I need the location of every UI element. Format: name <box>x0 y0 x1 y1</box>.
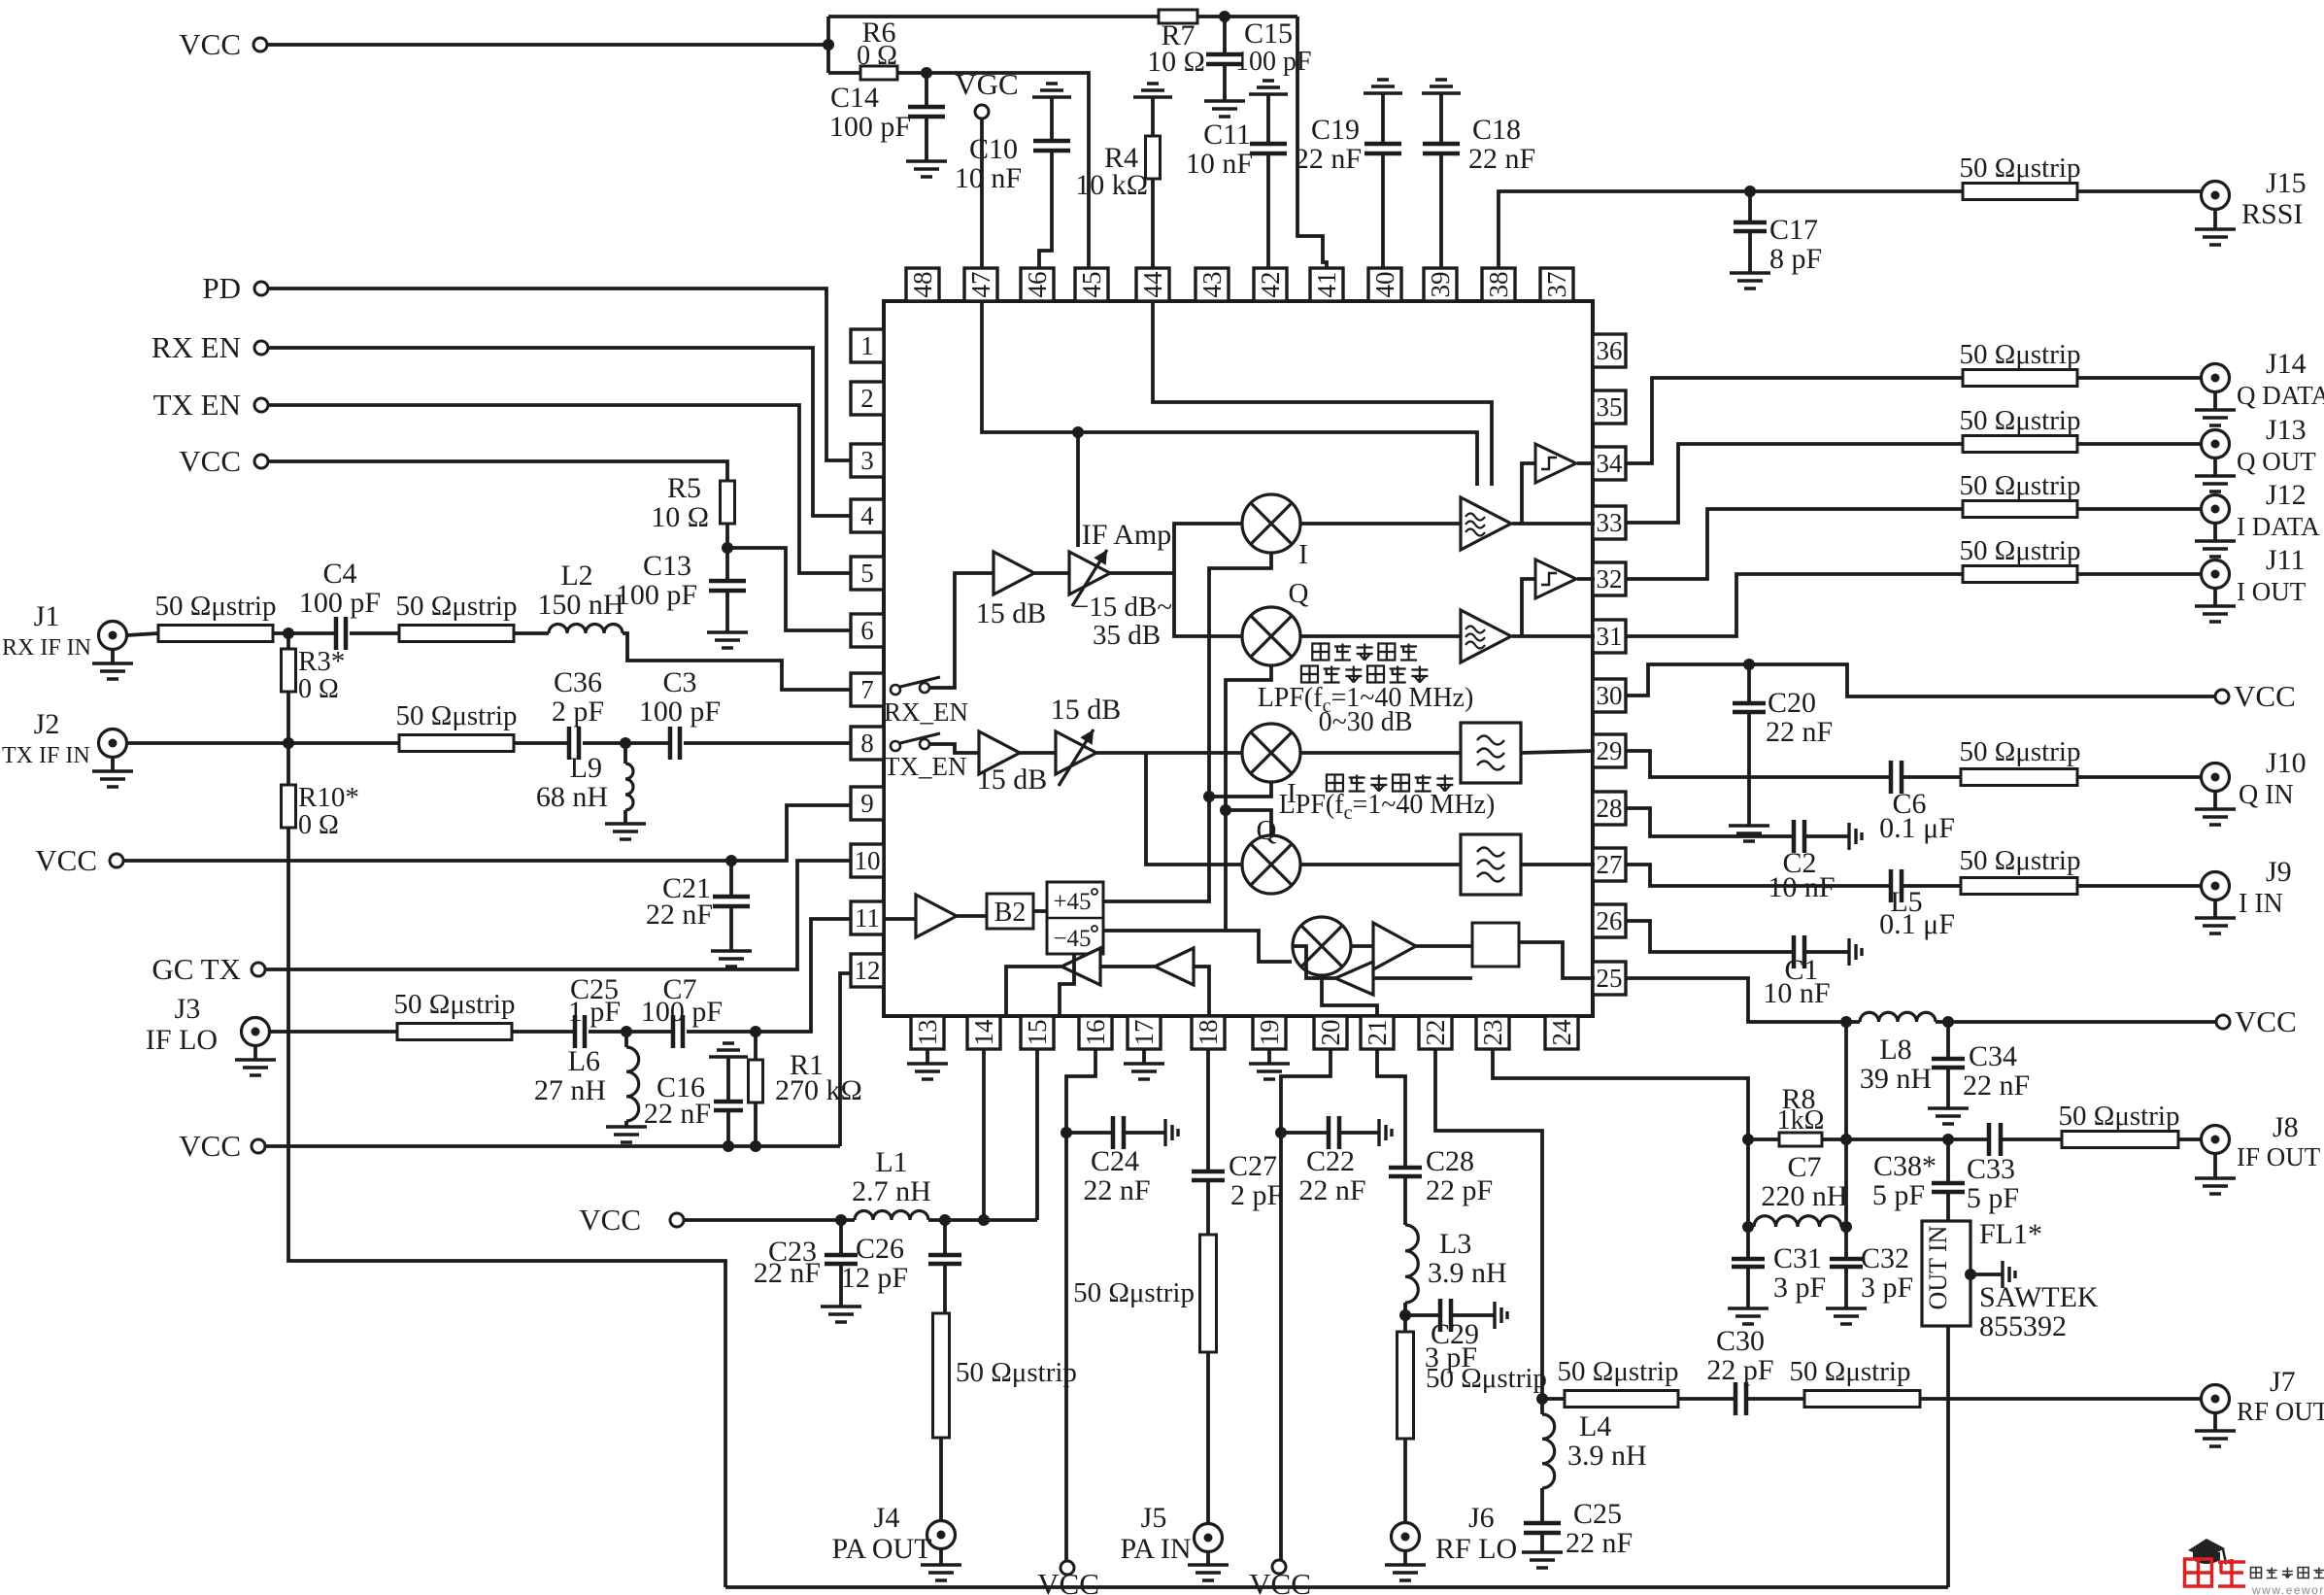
label C25b value <box>1566 1527 1633 1559</box>
svg-text:19: 19 <box>1255 1020 1284 1046</box>
label C7 <box>662 973 696 1005</box>
wire R6 to pin45 <box>897 73 1089 269</box>
svg-text:J10: J10 <box>2266 747 2307 779</box>
label C31 <box>1773 1242 1822 1274</box>
svg-text:GC TX: GC TX <box>152 952 241 986</box>
svg-text:16: 16 <box>1081 1020 1110 1046</box>
terminal VCC bottom-1 <box>1061 1561 1074 1575</box>
pin 24 <box>1545 1016 1578 1049</box>
svg-text:50 Ωμstrip: 50 Ωμstrip <box>1960 845 2081 876</box>
block (RF section) <box>1472 923 1519 967</box>
svg-text:50 Ωμstrip: 50 Ωμstrip <box>1426 1363 1547 1394</box>
svg-text:23: 23 <box>1478 1020 1507 1046</box>
capacitor C20 <box>1733 703 1766 712</box>
wire C11 to pin 42 <box>1266 153 1270 269</box>
ground (inverted) C19 top <box>1364 80 1402 93</box>
wire lpf1 to pin29 <box>1521 751 1595 753</box>
filter FL1 <box>1922 1221 1970 1326</box>
label L3 <box>1439 1228 1471 1260</box>
wire C34 to ground <box>1946 1068 1950 1108</box>
wire buf1-buf2 <box>1100 965 1155 968</box>
svg-text:10 Ω: 10 Ω <box>651 501 709 533</box>
microstrip J5 strip <box>1200 1235 1217 1352</box>
label VCC left-2 <box>179 444 241 478</box>
svg-text:PD: PD <box>202 271 241 305</box>
connector J6 <box>1392 1523 1420 1551</box>
wire LO Q tap stub <box>1226 810 1271 834</box>
label L8 value <box>1860 1063 1932 1095</box>
svg-text:9: 9 <box>860 789 874 818</box>
label VCC L1 <box>579 1203 641 1237</box>
svg-text:31: 31 <box>1597 622 1623 651</box>
svg-text:22 nF: 22 nF <box>1468 143 1535 175</box>
svg-text:VCC: VCC <box>2234 679 2296 713</box>
svg-text:J1: J1 <box>34 600 60 632</box>
label C15 value <box>1235 47 1312 77</box>
amplifier TX var amp <box>1056 731 1096 774</box>
ground C17 ground <box>1730 273 1770 288</box>
label L8 <box>1879 1034 1911 1066</box>
svg-text:100 pF: 100 pF <box>639 696 721 728</box>
amplifier RF amp <box>1373 923 1416 969</box>
svg-text:RX IF IN: RX IF IN <box>2 635 91 661</box>
wire bb Q to pin31 <box>1512 634 1595 638</box>
wire C15 stem <box>1223 17 1227 54</box>
schmitt buffer comparator I <box>1535 560 1576 598</box>
label R5 value <box>651 501 709 533</box>
wire L3 to node <box>1403 1303 1407 1332</box>
connector J10 <box>2202 764 2230 792</box>
wire R7 to C15 node <box>1197 15 1297 18</box>
terminal GC TX <box>252 963 265 976</box>
svg-text:RF LO: RF LO <box>1435 1533 1517 1565</box>
capacitor C15 <box>1206 54 1243 64</box>
connector J13 <box>2202 430 2230 458</box>
wire bb I to pin33 <box>1512 522 1595 526</box>
label I DATA <box>2237 512 2320 541</box>
svg-text:J5: J5 <box>1141 1502 1167 1534</box>
pin 3 <box>851 444 884 477</box>
svg-text:I IN: I IN <box>2239 889 2283 919</box>
label 15dB-1 <box>976 597 1047 629</box>
wire VGC tap to IF amp <box>1076 432 1080 547</box>
wire J15 gnd stem <box>2213 210 2217 229</box>
wire C16 stem <box>726 1057 730 1102</box>
svg-text:2 pF: 2 pF <box>1230 1179 1283 1211</box>
microstrip J13 strip <box>1963 436 2077 453</box>
pin 25 <box>1593 962 1626 995</box>
label strip J7-1 <box>1558 1356 1679 1387</box>
label C27 <box>1229 1150 1277 1182</box>
svg-text:0.1 μF: 0.1 μF <box>1879 908 1955 940</box>
label C18 value <box>1468 143 1535 175</box>
wire pin23 to R8 <box>1493 1049 1779 1139</box>
label C22 <box>1306 1145 1355 1177</box>
label strip J11 <box>1960 535 2081 566</box>
amplifier LO amp <box>916 895 957 937</box>
label C6 <box>1892 788 1926 820</box>
svg-text:43: 43 <box>1197 272 1227 298</box>
wire pin26 to C1 <box>1626 921 1794 952</box>
label C28 value <box>1426 1174 1493 1206</box>
svg-text:C32: C32 <box>1861 1242 1909 1274</box>
svg-text:IF LO: IF LO <box>146 1024 218 1056</box>
wire pin20 to VCC bottom <box>1279 1133 1283 1560</box>
junction C7/R1 node <box>750 1026 761 1037</box>
wire R8 to C33 <box>1822 1137 1989 1141</box>
label L3 value <box>1428 1257 1507 1289</box>
ground C25b ground <box>1522 1552 1563 1568</box>
pin 46 <box>1021 268 1054 301</box>
wire R1 stem <box>754 1032 758 1060</box>
ground L6 ground <box>606 1127 647 1142</box>
svg-text:C19: C19 <box>1311 114 1360 146</box>
label strip J12 <box>1960 470 2081 501</box>
wire varamp to mixer I <box>1110 524 1241 573</box>
amplifier TX amp 15dB <box>979 731 1020 774</box>
svg-text:100 pF: 100 pF <box>299 587 381 619</box>
label R5 <box>667 472 701 504</box>
connector J3 <box>242 1018 270 1046</box>
label C1 <box>1784 954 1818 986</box>
mixer mixer RF (TX up) <box>1293 917 1351 975</box>
svg-text:27 nH: 27 nH <box>534 1074 606 1106</box>
label C32 value <box>1861 1272 1913 1304</box>
amplifier LO buffer 1 <box>1061 948 1100 985</box>
label C30 value <box>1706 1354 1773 1386</box>
svg-text:VCC: VCC <box>1249 1567 1311 1595</box>
wire pin18 down <box>1206 1049 1210 1171</box>
label R3 value <box>298 674 339 704</box>
svg-text:Q IN: Q IN <box>2239 780 2294 810</box>
wire J2 gnd stem <box>111 758 115 771</box>
wire J2 to strip <box>127 741 399 745</box>
wire J3 gnd stem <box>253 1046 257 1060</box>
connector J2 <box>99 730 127 758</box>
label strip J13 <box>1960 405 2081 436</box>
label 855392 <box>1979 1310 2067 1342</box>
wire C20 stem <box>1747 664 1751 703</box>
wire strip to J12 <box>2077 507 2201 511</box>
wire J14 gnd stem <box>2213 392 2217 410</box>
svg-text:22 pF: 22 pF <box>1426 1174 1493 1206</box>
wire GCTX to pin 10 <box>265 861 851 969</box>
microstrip J15 strip <box>1963 184 2077 200</box>
terminal VCC bottom-2 <box>1272 1560 1286 1574</box>
ground (rotated) C29 ground <box>1495 1302 1507 1329</box>
junction J1/R3 node <box>283 628 294 639</box>
svg-text:10 Ω: 10 Ω <box>1147 46 1205 78</box>
svg-text:50 Ωμstrip: 50 Ωμstrip <box>1790 1356 1911 1387</box>
pin 10 <box>851 844 884 877</box>
svg-text:VGC: VGC <box>955 67 1018 101</box>
ground J10 ground <box>2195 809 2236 825</box>
ground J9 ground <box>2195 918 2236 933</box>
resistor R10* <box>282 785 296 828</box>
filter-amplifier baseband amp Q <box>1461 610 1511 662</box>
label C13 value <box>616 579 697 611</box>
pin 12 <box>851 954 884 987</box>
label C4 <box>322 558 356 590</box>
wire L1 out <box>928 1218 1037 1222</box>
wire R10 top <box>286 743 290 785</box>
svg-text:50 Ωμstrip: 50 Ωμstrip <box>1960 470 2081 501</box>
label J3 <box>175 993 201 1025</box>
pin 31 <box>1593 620 1626 653</box>
ground J4 ground <box>921 1565 961 1580</box>
label R4 value <box>1075 169 1148 201</box>
wire strip to J14 <box>2077 376 2201 380</box>
label C16 <box>657 1071 705 1103</box>
amplifier LO buffer 2 <box>1155 948 1194 985</box>
label C2 <box>1782 847 1816 879</box>
svg-text:C14: C14 <box>830 82 879 114</box>
label 35dB <box>1093 620 1161 651</box>
svg-text:50 Ωμstrip: 50 Ωμstrip <box>1960 339 2081 370</box>
label L6 <box>568 1045 600 1077</box>
wire C30 to strip2 <box>1746 1397 1804 1401</box>
wire strip to C4 <box>273 631 336 635</box>
ground C15 ground <box>1204 101 1245 117</box>
label strip J4 <box>956 1357 1077 1388</box>
wire buf2 in <box>1194 967 1209 1016</box>
svg-text:3.9 nH: 3.9 nH <box>1428 1257 1507 1289</box>
junction R5/C13 node <box>722 542 733 554</box>
svg-text:34: 34 <box>1597 449 1624 478</box>
wire box to pin25 <box>1519 942 1595 978</box>
pin 1 <box>851 329 884 362</box>
wire C25b to ground <box>1540 1533 1544 1552</box>
svg-text:C25: C25 <box>1573 1498 1622 1530</box>
wire VGC to pin 47 <box>980 119 984 269</box>
capacitor C31 <box>1732 1259 1765 1267</box>
svg-text:25: 25 <box>1597 964 1623 993</box>
label J9 <box>2266 856 2292 888</box>
pin 17 <box>1128 1016 1161 1049</box>
wire strip to C36 <box>514 741 569 745</box>
wire J1 gnd stem <box>111 649 115 663</box>
wire C2 to gnd <box>1804 834 1849 838</box>
label strip J5 <box>1073 1277 1195 1308</box>
wire mixer I out <box>1301 522 1461 526</box>
svg-text:3: 3 <box>860 446 874 475</box>
svg-text:270 kΩ: 270 kΩ <box>775 1074 862 1106</box>
wire L4 to C25b <box>1540 1488 1544 1523</box>
svg-text:VCC: VCC <box>179 1129 241 1163</box>
wire bottom rail <box>725 1585 1948 1589</box>
svg-text:0 Ω: 0 Ω <box>857 41 897 71</box>
label L5 <box>1890 886 1922 918</box>
svg-text:RX EN: RX EN <box>152 330 241 364</box>
label I OUT <box>2237 577 2307 606</box>
label R3* <box>298 646 345 677</box>
svg-text:R10*: R10* <box>298 782 359 813</box>
wire varamp2 to mixer I2 <box>1096 751 1241 755</box>
wire J13 gnd stem <box>2213 458 2217 476</box>
wire top rail to R7 <box>828 15 1159 18</box>
svg-text:39: 39 <box>1426 272 1455 298</box>
label J6 <box>1468 1502 1495 1534</box>
label 15dB-2 <box>977 764 1048 796</box>
ground C32 ground <box>1826 1308 1867 1324</box>
label J7 <box>2270 1366 2296 1398</box>
svg-text:−15 dB~: −15 dB~ <box>1073 592 1172 623</box>
label C23 <box>768 1236 817 1268</box>
wire strip2 to L2 <box>514 631 549 635</box>
svg-text:C20: C20 <box>1768 687 1816 719</box>
svg-text:15 dB: 15 dB <box>1051 694 1122 726</box>
label 0-30dB <box>1319 707 1413 737</box>
pin 18 <box>1192 1016 1225 1049</box>
svg-text:J7: J7 <box>2270 1366 2296 1398</box>
amplifier RX amp 15dB <box>994 552 1034 594</box>
junction C25/L6 <box>621 1026 632 1037</box>
svg-text:3 pF: 3 pF <box>1861 1272 1913 1304</box>
svg-text:RX_EN: RX_EN <box>884 697 968 727</box>
wire schmittQ in <box>1522 463 1535 524</box>
resistor R8 <box>1779 1133 1822 1146</box>
switch RX_EN <box>884 677 968 727</box>
svg-text:45: 45 <box>1077 272 1106 298</box>
wire L6 stem <box>624 1032 628 1047</box>
svg-text:J15: J15 <box>2266 167 2307 199</box>
mixer mixer I (RX) <box>1242 494 1300 553</box>
junction C24 node <box>1061 1127 1072 1138</box>
pin 38 <box>1482 268 1515 301</box>
junction C17 node <box>1744 186 1756 197</box>
svg-text:22 nF: 22 nF <box>1766 716 1833 748</box>
svg-text:C28: C28 <box>1426 1145 1474 1177</box>
wire R8L down <box>1746 1139 1750 1259</box>
svg-text:PA OUT: PA OUT <box>831 1533 931 1565</box>
wire L9 stem <box>623 743 627 764</box>
inductor L1 <box>855 1211 928 1221</box>
junction LO Q tap <box>1220 804 1231 816</box>
wire pin27 to L5 <box>1626 865 1891 886</box>
label IF OUT <box>2237 1142 2321 1171</box>
junction C23 node <box>835 1214 847 1226</box>
svg-text:C13: C13 <box>643 550 691 582</box>
capacitor C29 <box>1440 1299 1451 1332</box>
wire C22 wire <box>1281 1131 1329 1135</box>
arrow IF Amp gain arrow <box>1072 550 1107 606</box>
svg-text:L8: L8 <box>1879 1034 1911 1066</box>
label VCC bottom-2 <box>1249 1567 1311 1595</box>
svg-text:5 pF: 5 pF <box>1872 1179 1925 1211</box>
label C21 <box>662 872 711 904</box>
svg-text:10 nF: 10 nF <box>1186 148 1253 180</box>
microstrip J3 50ohm strip <box>397 1024 512 1040</box>
svg-text:SAWTEK: SAWTEK <box>1979 1281 2099 1313</box>
wire LO Q line <box>1103 666 1271 931</box>
svg-text:22 nF: 22 nF <box>1566 1527 1633 1559</box>
svg-text:4: 4 <box>860 501 874 530</box>
pin 14 <box>967 1016 1000 1049</box>
svg-text:38: 38 <box>1484 272 1513 298</box>
svg-text:42: 42 <box>1256 272 1285 298</box>
svg-text:C27: C27 <box>1229 1150 1277 1182</box>
label C17 value <box>1769 243 1822 275</box>
wire strip to J10 <box>2077 775 2201 779</box>
label C10 value <box>955 162 1022 194</box>
wire pin11 to amp3 <box>884 917 916 921</box>
label C29 value <box>1425 1341 1477 1374</box>
label VCC left-3 <box>35 843 97 877</box>
connector J1 <box>99 622 127 650</box>
junction VCC3/C21 <box>725 855 737 866</box>
label C4 value <box>299 587 381 619</box>
pin 36 <box>1593 334 1626 367</box>
wire C17 stem <box>1748 191 1752 222</box>
label C25b <box>1573 1498 1622 1530</box>
svg-text:1: 1 <box>860 331 874 360</box>
wire schmittI out <box>1577 577 1595 581</box>
wire VCC3 to pin 9 <box>123 805 851 861</box>
svg-text:L4: L4 <box>1579 1410 1611 1442</box>
label C14 value <box>829 111 911 143</box>
svg-text:50 Ωμstrip: 50 Ωμstrip <box>396 591 518 622</box>
label L1 value <box>852 1175 931 1207</box>
wire C19 stem top <box>1381 93 1385 144</box>
label C32 <box>1861 1242 1909 1274</box>
label Q label RX <box>1289 578 1309 609</box>
capacitor C2 <box>1794 820 1804 853</box>
svg-text:C7: C7 <box>1787 1151 1821 1183</box>
svg-text:IF Amp: IF Amp <box>1082 519 1172 551</box>
svg-text:100 pF: 100 pF <box>1235 47 1312 77</box>
label RX EN <box>152 330 241 364</box>
ground pin17 ground <box>1124 1064 1164 1079</box>
label VCC top-left <box>179 27 241 61</box>
svg-text:OUT IN: OUT IN <box>1924 1225 1952 1309</box>
svg-text:30: 30 <box>1597 681 1623 710</box>
wire pin to J14 <box>1626 378 1963 463</box>
wire J4 gnd stem <box>939 1549 943 1565</box>
svg-text:L1: L1 <box>875 1146 907 1178</box>
label strip J1-2 <box>396 591 518 622</box>
wire R1 to rail <box>754 1103 758 1146</box>
label I IN <box>2239 889 2283 919</box>
capacitor L5 <box>1891 869 1902 902</box>
label C24 value <box>1083 1174 1150 1206</box>
wire varamp2 to mixer Q2 <box>1146 753 1241 865</box>
svg-text:7: 7 <box>860 675 874 704</box>
label C20 <box>1768 687 1816 719</box>
svg-text:50 Ωμstrip: 50 Ωμstrip <box>1960 535 2081 566</box>
svg-text:C34: C34 <box>1969 1040 2017 1072</box>
label R7 value <box>1147 46 1205 78</box>
wire L6 to ground <box>624 1121 628 1127</box>
pin 2 <box>851 382 884 415</box>
wire amp3 to B2 <box>957 914 987 918</box>
wire node to C7 <box>626 1030 673 1034</box>
wire C10 stem top <box>1050 97 1054 141</box>
svg-text:VCC: VCC <box>2235 1004 2297 1038</box>
text (chinese) 有源电路选择 <box>1301 666 1428 683</box>
resistor R4 <box>1146 136 1161 179</box>
svg-text:L2: L2 <box>560 560 592 592</box>
capacitor C33 <box>1989 1123 2001 1156</box>
junction L4 node <box>1536 1393 1548 1405</box>
wire mixer3 to amp4 <box>1352 944 1373 948</box>
ground (inverted) C10 top <box>1032 84 1071 97</box>
svg-text:C4: C4 <box>322 558 356 590</box>
wire PD to pin 3 <box>268 288 851 460</box>
label C6 value <box>1879 812 1955 844</box>
svg-text:22 nF: 22 nF <box>646 899 713 931</box>
ground (rotated) C22 ground <box>1379 1119 1392 1146</box>
wire C24 to gnd <box>1124 1131 1165 1135</box>
